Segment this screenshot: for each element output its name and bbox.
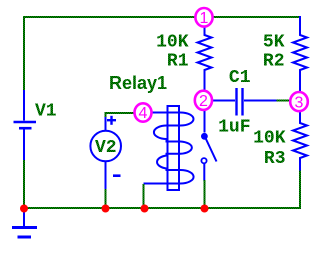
svg-text:1: 1	[200, 10, 209, 27]
svg-text:10K: 10K	[156, 33, 189, 53]
svg-text:V2: V2	[95, 138, 117, 158]
wire left rail upper	[23, 16, 25, 91]
svg-text:2: 2	[199, 93, 208, 110]
relay switch upper pin	[204, 110, 206, 133]
voltage source V2 circle	[90, 131, 121, 162]
wire C1 to node 3	[277, 100, 292, 102]
relay switch pivot dot	[201, 133, 208, 140]
node 2	[195, 91, 212, 110]
junction switch/bottom	[201, 205, 209, 213]
relay coil core rectangle	[168, 106, 180, 190]
svg-text:1uF: 1uF	[218, 118, 250, 138]
junction ground	[20, 205, 28, 213]
relay coil spiral	[144, 113, 194, 184]
relay switch blade	[206, 138, 217, 162]
svg-text:R3: R3	[264, 149, 286, 169]
svg-text:3: 3	[295, 94, 304, 111]
svg-text:C1: C1	[229, 68, 251, 88]
resistor R3	[293, 111, 307, 171]
wire left rail lower	[23, 160, 25, 209]
wire coil to bottom rail	[143, 184, 145, 208]
voltage source V2 top pin	[105, 116, 107, 131]
svg-text:4: 4	[139, 105, 148, 122]
svg-text:R2: R2	[263, 52, 285, 72]
svg-text:V1: V1	[35, 102, 57, 122]
wire bottom rail	[23, 207, 301, 209]
wire right rail lower	[299, 170, 301, 209]
wire top rail	[23, 16, 301, 18]
voltage source V2 bottom pin	[105, 162, 107, 191]
svg-text:Relay1: Relay1	[109, 73, 167, 93]
resistor R1	[198, 26, 212, 91]
voltage source V2 minus sign	[113, 174, 121, 177]
wire switch to bottom rail	[204, 180, 206, 208]
capacitor C1 plates	[235, 88, 237, 116]
ground	[12, 209, 37, 237]
voltage source V2 plus sign	[107, 116, 116, 125]
svg-text:5K: 5K	[263, 33, 285, 53]
battery V1	[14, 90, 37, 161]
node 1	[195, 8, 212, 27]
node 4	[135, 103, 152, 121]
relay switch lower pin	[203, 164, 205, 182]
node 3	[290, 92, 308, 111]
wire V2 to bottom rail	[105, 189, 107, 208]
junction coil/bottom	[141, 205, 149, 213]
relay coil entry pin from node 4	[151, 112, 181, 114]
capacitor C1 right pin	[244, 100, 277, 102]
svg-text:R1: R1	[167, 52, 189, 72]
wire V2 to node 4	[106, 113, 136, 117]
resistor R2	[293, 16, 307, 92]
junction V2/bottom	[102, 205, 110, 213]
relay switch contact circle	[201, 158, 206, 163]
capacitor C1 left pin	[212, 100, 235, 102]
svg-text:10K: 10K	[253, 129, 286, 149]
